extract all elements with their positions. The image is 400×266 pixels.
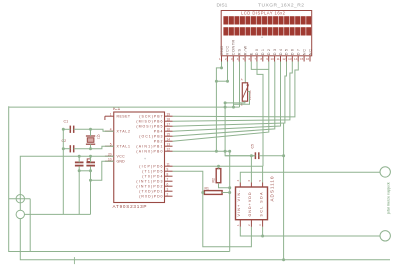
wire LCD R/W pin5 xyxy=(244,62,246,83)
resistor R2 xyxy=(216,169,221,183)
junction R1 right xyxy=(228,191,231,194)
svg-text:D4: D4 xyxy=(279,49,283,55)
svg-text:(MISO)PB6: (MISO)PB6 xyxy=(136,119,162,123)
LCD pin stubs and numbers xyxy=(221,56,223,62)
svg-text:17: 17 xyxy=(167,123,171,127)
wire PD5 to SDA path xyxy=(173,171,252,247)
wire R1 right pin xyxy=(222,192,230,194)
terminal J1 measure + xyxy=(380,167,390,177)
wire VIN- to terminal bottom xyxy=(240,227,380,236)
svg-text:LCD DISPLAY 16x2: LCD DISPLAY 16x2 xyxy=(241,11,286,16)
wire GND left rail from caps xyxy=(62,129,64,214)
svg-text:AT90S2313P: AT90S2313P xyxy=(113,204,147,209)
wire LCD RS pin4 xyxy=(239,62,241,108)
svg-text:C1: C1 xyxy=(64,120,69,124)
LCD module body with 16x2 cells xyxy=(221,11,312,56)
svg-text:GND: GND xyxy=(117,159,126,163)
svg-text:NC: NC xyxy=(302,49,306,55)
svg-text:R2: R2 xyxy=(212,178,216,182)
junction R1 left xyxy=(201,191,204,194)
svg-text:D0: D0 xyxy=(255,49,259,55)
junction C3 VCC xyxy=(78,155,81,158)
svg-text:11: 11 xyxy=(277,57,280,61)
wire PD6 to SCL xyxy=(173,165,264,167)
junction C1 left xyxy=(62,128,65,131)
junction pin2 gnd drop xyxy=(215,80,218,83)
junction R2 top xyxy=(217,165,220,168)
svg-text:10: 10 xyxy=(270,57,274,61)
wire VCC rail xyxy=(20,156,113,203)
wire through terminal X1 xyxy=(9,198,31,200)
wire LCD D0 pin7 xyxy=(257,62,263,167)
junction R2 bottom xyxy=(228,186,231,189)
wire C3 top to VCC rail xyxy=(78,156,80,162)
svg-text:TUXGR_16X2_R2: TUXGR_16X2_R2 xyxy=(258,2,304,8)
svg-text:14: 14 xyxy=(167,138,171,142)
wire C5 right to gnd drop xyxy=(259,155,284,157)
junction frame tick xyxy=(73,257,75,264)
svg-text:8: 8 xyxy=(167,173,169,177)
wire C4 bottom down xyxy=(90,166,92,214)
wire gnd drop x283 xyxy=(283,123,285,260)
svg-text:9: 9 xyxy=(167,168,169,172)
junction crystal bottom xyxy=(89,147,92,150)
svg-text:(SCK)PB7: (SCK)PB7 xyxy=(139,114,162,118)
terminal J2 measure - xyxy=(380,231,390,241)
terminal X1 power + xyxy=(16,195,24,203)
junction x225 gnd line xyxy=(224,106,227,109)
svg-text:PB4: PB4 xyxy=(154,129,163,133)
wire gnd mid rail x225 xyxy=(225,103,255,156)
wire R2 bottom to rail xyxy=(219,183,230,188)
junction x225 pb0 line xyxy=(224,150,227,153)
svg-text:18: 18 xyxy=(167,118,171,122)
wire cap bottoms link xyxy=(79,170,90,172)
junction C4 VCC xyxy=(89,155,92,158)
svg-text:GND: GND xyxy=(220,46,224,56)
svg-text:(OC1)PB3: (OC1)PB3 xyxy=(139,134,162,138)
svg-text:7: 7 xyxy=(167,178,169,182)
wire XTAL2 net xyxy=(63,128,70,130)
svg-text:6: 6 xyxy=(167,183,169,187)
wire R2 top pin xyxy=(218,166,220,168)
svg-text:VCC: VCC xyxy=(117,154,126,158)
junction LCD pin2 xyxy=(226,80,229,83)
svg-text:19: 19 xyxy=(167,113,171,117)
capacitor C4 xyxy=(86,161,95,163)
crystal Q1 xyxy=(87,138,94,143)
wire IC GND to caps xyxy=(91,161,114,180)
svg-text:RESET: RESET xyxy=(117,114,131,118)
svg-text:D2: D2 xyxy=(267,49,271,55)
ADS1110 top pin stubs xyxy=(239,183,241,188)
junction GND snake xyxy=(89,179,92,182)
svg-text:11: 11 xyxy=(167,163,171,167)
wire pot S to CONTR xyxy=(234,92,250,105)
svg-text:CONTR: CONTR xyxy=(232,39,236,55)
wire LCD E pin6 xyxy=(251,62,268,70)
svg-text:NC: NC xyxy=(308,49,312,55)
svg-text:A: A xyxy=(241,78,243,82)
svg-text:15: 15 xyxy=(167,133,171,137)
junction gnd drop bottom xyxy=(282,258,285,261)
svg-text:(AIN0)PB0: (AIN0)PB0 xyxy=(136,149,162,153)
svg-text:(INT0)PD2: (INT0)PD2 xyxy=(136,184,162,188)
wire VIN+ to terminal top xyxy=(240,172,380,182)
terminal X2 power - xyxy=(16,210,24,218)
svg-text:(AIN1)PB1: (AIN1)PB1 xyxy=(136,144,162,148)
wire LCD CONTR pin3 xyxy=(233,62,235,108)
capacitor C5 xyxy=(254,152,256,159)
svg-text:14: 14 xyxy=(294,57,298,61)
capacitor C2 xyxy=(69,145,71,152)
wire X1 to bottom bus xyxy=(29,199,31,252)
svg-text:PB2: PB2 xyxy=(154,139,163,143)
wire C5 left to VDD pin xyxy=(225,155,255,157)
svg-text:C5: C5 xyxy=(251,144,255,148)
junction C2 left xyxy=(62,147,65,150)
op-amp U1 ADS1110 body xyxy=(236,187,268,220)
svg-text:XTAL1: XTAL1 xyxy=(117,144,131,148)
wire PB0 line xyxy=(173,150,230,152)
svg-text:13: 13 xyxy=(288,57,292,61)
svg-text:(TXD)PD1: (TXD)PD1 xyxy=(139,189,162,193)
potentiometer R1 trimmer body xyxy=(242,83,247,101)
svg-text:R/W: R/W xyxy=(243,45,247,55)
wire pot E to gnd rail xyxy=(225,101,245,103)
wire GND top rail xyxy=(9,106,230,251)
svg-text:E: E xyxy=(249,52,253,55)
svg-text:D3: D3 xyxy=(273,49,277,55)
svg-text:DIS1: DIS1 xyxy=(217,2,228,8)
wire pin1 to GND drop xyxy=(216,68,221,151)
svg-text:XTAL2: XTAL2 xyxy=(117,129,131,133)
wire LCD GND pin1 xyxy=(221,62,223,68)
ADS1110 bottom pin stubs xyxy=(239,220,241,227)
junction pin1 drop xyxy=(215,150,218,153)
wire XTAL1 net xyxy=(63,148,70,150)
junction LCD pin1 xyxy=(220,66,223,69)
svg-text:VCC: VCC xyxy=(226,46,230,56)
wire X2 to caps line xyxy=(25,213,91,215)
svg-text:D1: D1 xyxy=(261,49,265,55)
svg-text:ADS1110: ADS1110 xyxy=(270,176,275,201)
wires data bus D2-D7 to PB2-PB7 xyxy=(173,62,299,117)
wire SCL bottom stub xyxy=(262,227,264,236)
svg-text:GND+VDD: GND+VDD xyxy=(248,192,252,216)
svg-text:C2: C2 xyxy=(62,139,67,143)
svg-text:D6: D6 xyxy=(291,49,295,55)
junction C3 bottom xyxy=(78,169,81,172)
junction C5 right xyxy=(282,154,285,157)
junction C4 bottom xyxy=(89,169,92,172)
svg-text:RS: RS xyxy=(238,49,242,56)
junction pot E xyxy=(224,101,227,104)
svg-text:(RXD)PD0: (RXD)PD0 xyxy=(139,194,162,198)
svg-text:3: 3 xyxy=(167,188,169,192)
wire pin2 left leg xyxy=(216,80,227,82)
svg-text:R1: R1 xyxy=(205,186,209,190)
svg-text:2: 2 xyxy=(167,193,169,197)
wire terminal X2 down leg xyxy=(20,219,390,260)
svg-text:1: 1 xyxy=(110,112,112,116)
svg-text:(MOSI)PB5: (MOSI)PB5 xyxy=(136,124,162,128)
junction C5 vdd xyxy=(250,154,253,157)
capacitor C3 xyxy=(75,161,84,163)
junction SCL terminal wire xyxy=(261,235,264,238)
svg-text:D7: D7 xyxy=(297,49,301,55)
resistor R1 xyxy=(204,191,222,195)
svg-text:12: 12 xyxy=(167,148,171,152)
svg-text:12: 12 xyxy=(282,57,286,61)
capacitor C1 xyxy=(69,126,71,133)
wire C4 top to VCC rail xyxy=(90,156,92,162)
junction crystal top xyxy=(89,128,92,131)
svg-text:D5: D5 xyxy=(285,49,289,55)
wire LCD VCC pin2 xyxy=(227,62,229,82)
wire mid rail x229 xyxy=(229,151,231,251)
IC1 reset pin open hook xyxy=(104,116,106,120)
wire between terminals xyxy=(19,203,21,210)
svg-text:VIN+ VIN-: VIN+ VIN- xyxy=(237,190,241,217)
junction PB0 x229 xyxy=(228,150,231,153)
wire R1 left pin xyxy=(203,192,205,194)
svg-text:13: 13 xyxy=(167,143,171,147)
junction pin3 gnd line xyxy=(232,106,235,109)
svg-text:Q1: Q1 xyxy=(97,135,101,140)
svg-text:16: 16 xyxy=(167,128,171,132)
svg-text:(INT1)PD3: (INT1)PD3 xyxy=(136,179,162,183)
svg-text:15: 15 xyxy=(300,57,304,61)
wire C3 bottom down xyxy=(78,166,80,214)
svg-text:16: 16 xyxy=(306,57,310,61)
svg-text:jutai merze napjeck: jutai merze napjeck xyxy=(386,182,390,215)
